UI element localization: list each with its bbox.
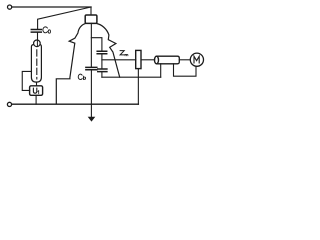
terminal bottom-left (7, 102, 11, 106)
wire ground run to shield (102, 76, 161, 78)
transformer tank outline left (56, 24, 85, 104)
tube body (standard capacitor) (31, 45, 41, 83)
tube inner dashed electrode (36, 50, 38, 79)
wire drop to bushing head box (90, 7, 92, 15)
wire tube side tap to U1 (22, 71, 31, 90)
wire ground bus (12, 103, 138, 105)
label Cb (78, 74, 85, 79)
capacitor C2 bushing lower (98, 69, 107, 72)
wire branch to bushing capacitance chain (91, 38, 102, 51)
wire tap to Zm (102, 59, 136, 61)
instrument M circle (190, 53, 203, 66)
wire through tube circle (36, 40, 38, 46)
impedance Zm (136, 50, 141, 68)
label Zm (120, 51, 128, 56)
label C0 (43, 27, 51, 33)
wire C2 bottom down (101, 72, 103, 77)
terminal top-left input (8, 5, 12, 9)
label U1 (33, 88, 38, 94)
wire C1 to C2 (101, 54, 103, 69)
tube top circle (34, 40, 41, 47)
coaxial cable end ellipse (155, 56, 159, 64)
bushing head box (85, 15, 97, 23)
wire tube bottom to U1 (36, 82, 38, 86)
wire top bus (12, 6, 91, 8)
transformer tank outline right (97, 24, 120, 78)
wire Zm bottom to ground bus (137, 69, 139, 105)
ground arrow head (88, 117, 96, 122)
capacitor C0 (31, 30, 41, 33)
label M (194, 56, 199, 63)
conductor bushing center (90, 23, 92, 67)
wire shield loop to instrument (174, 64, 197, 76)
capacitor Cb (86, 67, 97, 69)
wire cable to instrument (179, 59, 190, 61)
wire cable shield to ground (160, 64, 162, 77)
coaxial cable body (157, 56, 180, 64)
wire C0 to tube (37, 33, 39, 41)
capacitor C1 bushing upper (97, 51, 107, 53)
ground arrow conductor (90, 70, 92, 117)
wire U1 to ground bus (35, 95, 37, 104)
box U1 (30, 86, 43, 96)
wire diagonal to C0 (38, 7, 91, 29)
wire Zm to cable (141, 59, 155, 61)
